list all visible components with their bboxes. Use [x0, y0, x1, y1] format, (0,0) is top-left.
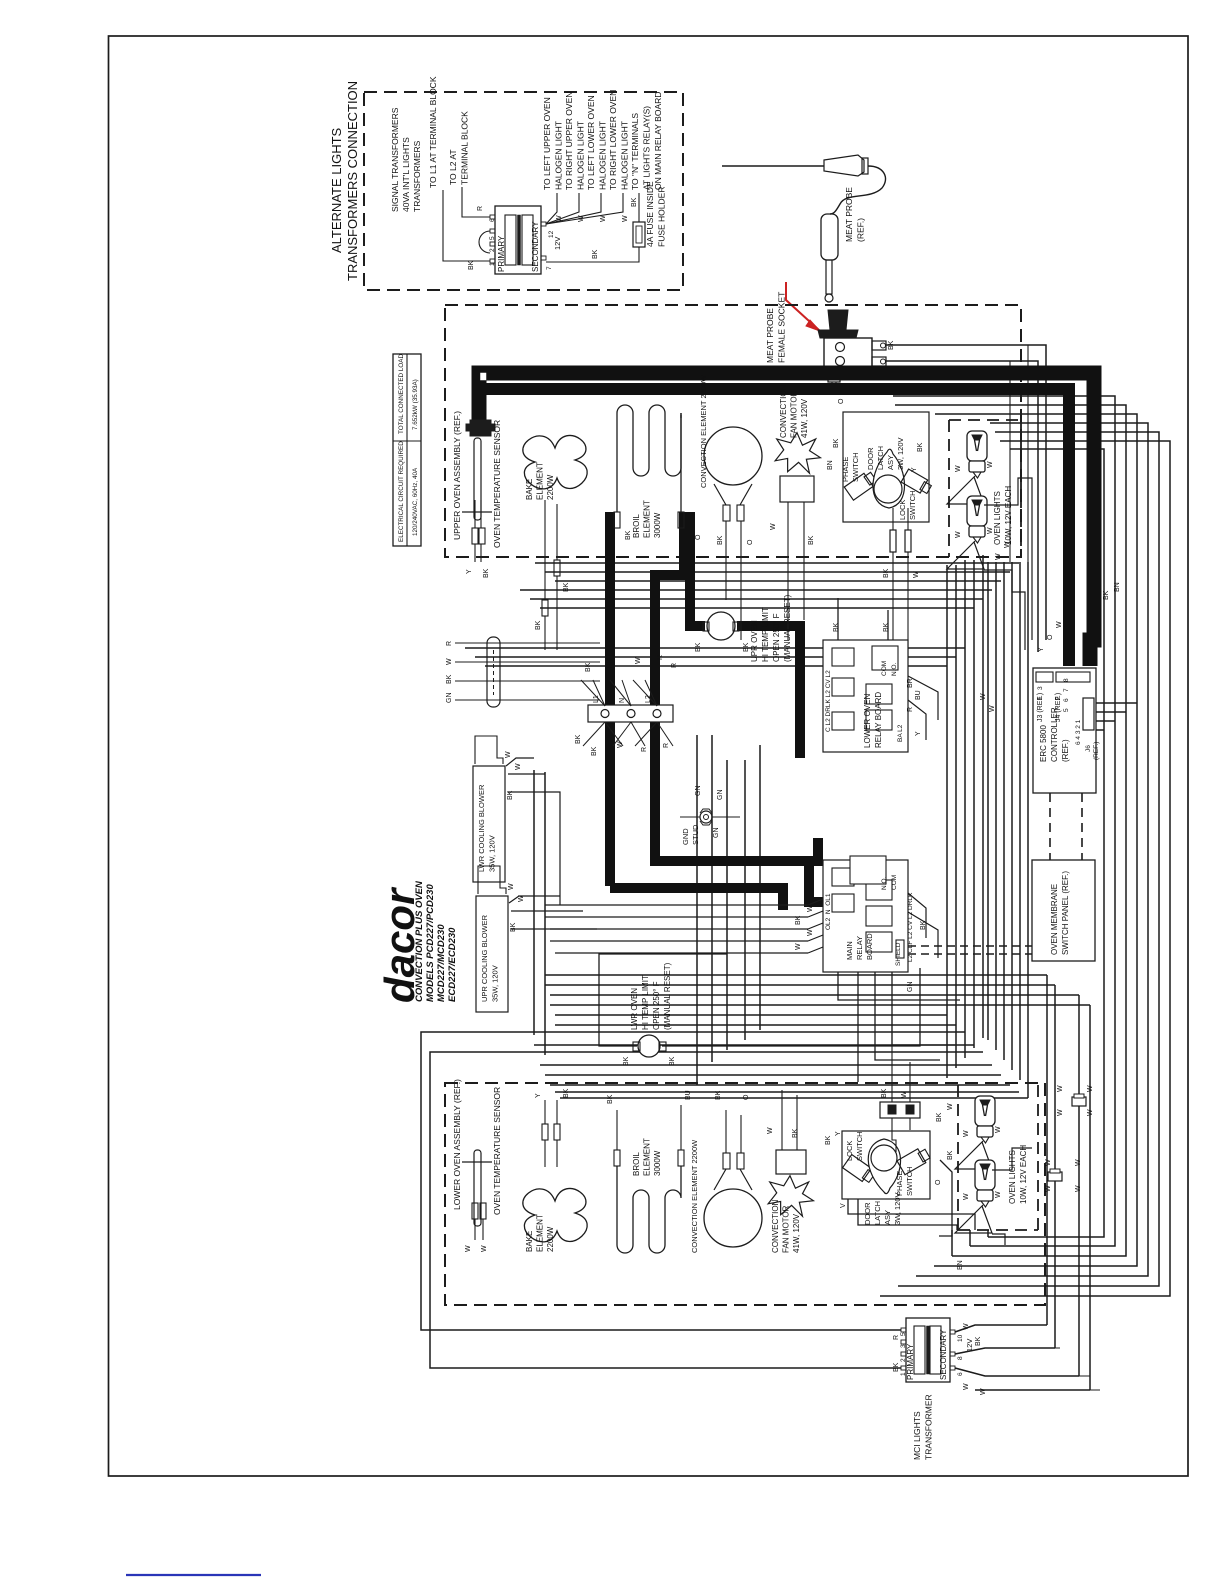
svg-text:OPEN 250° F: OPEN 250° F: [772, 613, 781, 662]
svg-text:LOCK: LOCK: [845, 1141, 854, 1161]
svg-text:CONVECTION: CONVECTION: [771, 1199, 780, 1253]
svg-text:2200W: 2200W: [546, 1226, 555, 1252]
svg-text:O: O: [747, 539, 754, 545]
svg-text:TO "N" TERMINALS: TO "N" TERMINALS: [630, 113, 640, 190]
svg-text:W: W: [767, 1127, 774, 1134]
svg-text:AT LIGHTS RELAY(S): AT LIGHTS RELAY(S): [642, 106, 652, 190]
svg-text:BK: BK: [881, 1088, 888, 1098]
svg-text:(MANUAL RESET): (MANUAL RESET): [663, 962, 672, 1030]
svg-text:O: O: [743, 1094, 750, 1100]
svg-text:HALOGEN LIGHT: HALOGEN LIGHT: [554, 121, 564, 190]
svg-text:41W, 120V: 41W, 120V: [800, 398, 809, 438]
svg-text:BK: BK: [563, 1088, 570, 1098]
svg-text:(REF.): (REF.): [856, 218, 866, 242]
svg-text:W: W: [807, 929, 814, 936]
svg-text:J6: J6: [1085, 745, 1092, 752]
svg-text:SWITCH: SWITCH: [855, 1131, 864, 1161]
svg-text:40VA INT'L LIGHTS: 40VA INT'L LIGHTS: [401, 137, 411, 212]
svg-text:BK: BK: [920, 920, 927, 930]
svg-text:OVEN TEMPERATURE SENSOR: OVEN TEMPERATURE SENSOR: [492, 420, 502, 548]
svg-text:SIGNAL TRANSFORMERS: SIGNAL TRANSFORMERS: [390, 107, 400, 212]
svg-text:W: W: [987, 461, 994, 468]
svg-text:BK: BK: [669, 1056, 676, 1066]
svg-text:W: W: [989, 705, 996, 712]
svg-text:COM: COM: [881, 661, 888, 676]
svg-text:TO RIGHT UPPER OVEN: TO RIGHT UPPER OVEN: [564, 92, 574, 190]
svg-text:FAN MOTOR: FAN MOTOR: [790, 390, 799, 438]
svg-text:Y: Y: [835, 1131, 842, 1136]
svg-text:6: 6: [489, 218, 496, 222]
svg-text:BK: BK: [446, 674, 453, 684]
svg-text:BK: BK: [591, 746, 598, 756]
svg-text:GN: GN: [717, 790, 724, 801]
svg-text:ELEMENT: ELEMENT: [536, 462, 545, 500]
svg-text:Y: Y: [535, 1093, 542, 1098]
svg-text:W: W: [515, 763, 522, 770]
svg-text:BK: BK: [592, 249, 599, 259]
svg-text:BK: BK: [808, 535, 815, 545]
svg-text:BROIL: BROIL: [632, 1151, 641, 1176]
svg-text:W: W: [1057, 1085, 1064, 1092]
svg-text:W: W: [1075, 1185, 1082, 1192]
svg-text:BK: BK: [883, 622, 890, 632]
svg-text:6: 6: [1063, 698, 1070, 702]
svg-text:W: W: [963, 1130, 970, 1137]
svg-text:BA L2: BA L2: [897, 724, 904, 742]
svg-text:PHASE: PHASE: [895, 1171, 904, 1196]
svg-text:BU: BU: [685, 1090, 692, 1100]
svg-text:ECD227/ECD230: ECD227/ECD230: [447, 927, 458, 1002]
svg-text:OVEN LIGHTS: OVEN LIGHTS: [993, 491, 1002, 545]
svg-text:7: 7: [546, 266, 553, 270]
svg-text:HI TEMP LIMIT: HI TEMP LIMIT: [641, 975, 650, 1030]
svg-text:BROIL: BROIL: [632, 513, 641, 538]
svg-text:OVEN LIGHTS: OVEN LIGHTS: [1008, 1150, 1017, 1204]
svg-text:GN: GN: [695, 786, 702, 797]
svg-text:W: W: [947, 1103, 954, 1110]
svg-text:3W, 120V: 3W, 120V: [896, 437, 905, 470]
svg-text:1: 1: [1037, 696, 1044, 700]
svg-text:BK: BK: [631, 197, 638, 207]
svg-text:BK: BK: [975, 1336, 982, 1346]
svg-text:1: 1: [900, 1372, 907, 1376]
svg-text:W: W: [505, 751, 512, 758]
svg-text:R: R: [446, 641, 453, 646]
svg-text:BK: BK: [717, 535, 724, 545]
svg-text:W: W: [770, 523, 777, 530]
svg-text:TOTAL CONNECTED LOAD: TOTAL CONNECTED LOAD: [398, 354, 405, 434]
svg-text:5: 5: [489, 236, 496, 240]
svg-text:12V: 12V: [553, 237, 562, 250]
svg-text:W: W: [901, 1091, 908, 1098]
svg-text:ERC 5800: ERC 5800: [1039, 725, 1048, 762]
svg-text:2: 2: [900, 1358, 907, 1362]
svg-text:OVEN MEMBRANE: OVEN MEMBRANE: [1050, 884, 1059, 955]
svg-text:BN: BN: [957, 1260, 964, 1270]
svg-text:R: R: [641, 747, 648, 752]
svg-text:ELEMENT: ELEMENT: [536, 1214, 545, 1252]
svg-text:W: W: [1075, 1159, 1082, 1166]
svg-text:W: W: [980, 1388, 987, 1395]
svg-text:LWR OVEN: LWR OVEN: [630, 988, 639, 1030]
svg-text:W: W: [1045, 1159, 1052, 1166]
svg-text:6 4 3 2 1: 6 4 3 2 1: [1075, 719, 1082, 745]
svg-text:W: W: [995, 1191, 1002, 1198]
svg-text:BU: BU: [915, 690, 922, 700]
svg-text:N.O.: N.O.: [881, 876, 888, 890]
svg-text:MAIN: MAIN: [845, 941, 854, 960]
svg-text:W: W: [963, 1383, 970, 1390]
svg-text:W: W: [955, 465, 962, 472]
svg-text:BN: BN: [827, 460, 834, 470]
svg-text:TRANSFORMERS CONNECTION: TRANSFORMERS CONNECTION: [345, 81, 360, 281]
svg-text:GND: GND: [681, 828, 690, 845]
svg-text:TO L1 AT TERMINAL BLOCK: TO L1 AT TERMINAL BLOCK: [428, 76, 438, 188]
svg-text:ELECTRICAL CIRCUIT REQUIRED: ELECTRICAL CIRCUIT REQUIRED: [398, 441, 405, 542]
svg-text:(MANUAL RESET): (MANUAL RESET): [783, 594, 792, 662]
svg-text:W: W: [980, 693, 987, 700]
svg-text:120/240VAC, 60Hz, 40A: 120/240VAC, 60Hz, 40A: [412, 467, 419, 536]
svg-text:W: W: [1057, 1109, 1064, 1116]
svg-text:BAKE: BAKE: [525, 479, 534, 500]
svg-text:3: 3: [1037, 686, 1044, 690]
svg-text:CONVECTION: CONVECTION: [779, 384, 788, 438]
svg-text:5: 5: [900, 1332, 907, 1336]
svg-text:GN: GN: [907, 982, 914, 993]
svg-text:BK: BK: [833, 438, 840, 448]
svg-text:BK: BK: [883, 568, 890, 578]
svg-text:R: R: [477, 206, 484, 211]
svg-text:PHASE: PHASE: [841, 457, 850, 482]
svg-text:OVEN TEMPERATURE SENSOR: OVEN TEMPERATURE SENSOR: [492, 1087, 502, 1215]
svg-text:1: 1: [489, 262, 496, 266]
svg-text:W: W: [635, 657, 642, 664]
svg-text:HALOGEN LIGHT: HALOGEN LIGHT: [576, 121, 586, 190]
svg-text:R: R: [657, 655, 664, 660]
svg-text:10W, 12V EACH: 10W, 12V EACH: [1019, 1145, 1028, 1204]
svg-text:W: W: [795, 943, 802, 950]
svg-text:W: W: [622, 215, 629, 222]
svg-text:LOWER OVEN ASSEMBLY (REF.): LOWER OVEN ASSEMBLY (REF.): [452, 1079, 462, 1210]
svg-text:R: R: [907, 707, 914, 712]
svg-text:RELAY BOARD: RELAY BOARD: [874, 692, 883, 748]
svg-text:CONVECTION ELEMENT 2200W: CONVECTION ELEMENT 2200W: [690, 1139, 699, 1253]
svg-text:TRANSFORMER: TRANSFORMER: [924, 1394, 934, 1460]
svg-text:BK: BK: [833, 622, 840, 632]
svg-text:MEAT PROBE: MEAT PROBE: [844, 187, 854, 242]
svg-text:R: R: [671, 663, 678, 668]
svg-text:W: W: [465, 1245, 472, 1252]
svg-text:W: W: [1045, 1185, 1052, 1192]
svg-text:R: R: [663, 743, 670, 748]
svg-text:3000W: 3000W: [653, 1150, 662, 1176]
svg-text:41W, 120V: 41W, 120V: [792, 1213, 801, 1253]
svg-text:35W, 120V: 35W, 120V: [491, 965, 500, 1002]
svg-text:W: W: [446, 658, 453, 665]
svg-text:RELAY: RELAY: [855, 936, 864, 960]
svg-text:STUD: STUD: [691, 824, 700, 845]
svg-text:N.O.: N.O.: [891, 662, 898, 676]
svg-text:2: 2: [489, 248, 496, 252]
svg-text:BK: BK: [468, 260, 475, 270]
svg-text:Y: Y: [1038, 647, 1045, 652]
svg-text:W: W: [807, 905, 814, 912]
svg-text:PRIMARY: PRIMARY: [497, 235, 506, 272]
svg-text:MEAT PROBE: MEAT PROBE: [765, 308, 775, 363]
svg-text:W: W: [1056, 621, 1063, 628]
svg-text:BK: BK: [917, 442, 924, 452]
svg-text:BK: BK: [607, 658, 614, 668]
svg-text:FUSE HOLDER: FUSE HOLDER: [657, 187, 667, 247]
svg-text:DOOR: DOOR: [866, 447, 875, 470]
svg-text:O: O: [838, 398, 845, 404]
svg-text:LWR COOLING BLOWER: LWR COOLING BLOWER: [477, 784, 486, 872]
svg-text:TO LEFT LOWER OVEN: TO LEFT LOWER OVEN: [586, 95, 596, 190]
svg-text:LOWER OVEN: LOWER OVEN: [863, 694, 872, 748]
svg-text:TERMINAL BLOCK: TERMINAL BLOCK: [460, 111, 470, 185]
svg-text:LATCH: LATCH: [873, 1201, 882, 1225]
svg-text:BK: BK: [563, 582, 570, 592]
svg-text:3W, 120V: 3W, 120V: [893, 1192, 902, 1225]
svg-text:V: V: [840, 1203, 847, 1208]
svg-text:SWITCH: SWITCH: [905, 1166, 914, 1196]
svg-text:(REF.): (REF.): [1061, 739, 1070, 762]
svg-text:BK: BK: [623, 1056, 630, 1066]
svg-text:BN: BN: [1114, 582, 1121, 592]
svg-text:UPR OVEN: UPR OVEN: [750, 620, 759, 662]
svg-text:BK: BK: [1103, 590, 1110, 600]
svg-text:10W, 12V EACH: 10W, 12V EACH: [1004, 486, 1013, 545]
svg-text:6: 6: [957, 1372, 964, 1376]
svg-text:BK: BK: [947, 1150, 954, 1160]
svg-text:10: 10: [957, 1334, 964, 1342]
svg-text:BK: BK: [893, 1362, 900, 1372]
svg-text:(REF.): (REF.): [1093, 742, 1100, 760]
svg-text:ELEMENT: ELEMENT: [643, 500, 652, 538]
svg-text:ASY: ASY: [883, 1210, 892, 1225]
svg-text:COM: COM: [891, 875, 898, 890]
svg-text:3: 3: [900, 1344, 907, 1348]
svg-text:4A FUSE INSIDE: 4A FUSE INSIDE: [645, 181, 655, 247]
svg-text:W: W: [1087, 1085, 1094, 1092]
svg-text:W: W: [481, 1245, 488, 1252]
svg-text:BK: BK: [483, 568, 490, 578]
svg-text:CONVECTION ELEMENT 2200W: CONVECTION ELEMENT 2200W: [699, 374, 708, 488]
svg-text:SWITCH: SWITCH: [851, 452, 860, 482]
svg-text:GN: GN: [446, 693, 453, 704]
svg-text:OPEN 250° F: OPEN 250° F: [652, 981, 661, 1030]
svg-text:BK: BK: [510, 922, 517, 932]
svg-text:3000W: 3000W: [653, 512, 662, 538]
svg-text:SWITCH: SWITCH: [908, 490, 917, 520]
svg-text:TRANSFORMERS: TRANSFORMERS: [412, 140, 422, 212]
svg-text:W: W: [955, 531, 962, 538]
svg-text:W: W: [600, 215, 607, 222]
svg-text:LOCK: LOCK: [898, 500, 907, 520]
svg-text:PRIMARY: PRIMARY: [906, 1343, 915, 1380]
svg-text:C L2 DRLK L2 CV L2: C L2 DRLK L2 CV L2: [825, 670, 832, 732]
svg-text:7.652kW (35.93A): 7.652kW (35.93A): [412, 379, 419, 430]
svg-text:FEMALE SOCKET: FEMALE SOCKET: [777, 292, 787, 363]
svg-text:W: W: [617, 741, 624, 748]
svg-text:8: 8: [1063, 678, 1070, 682]
svg-text:HALOGEN LIGHT: HALOGEN LIGHT: [620, 121, 630, 190]
svg-text:GN: GN: [713, 828, 720, 839]
svg-text:O: O: [1047, 634, 1054, 640]
svg-text:BK: BK: [715, 1090, 722, 1100]
svg-text:R: R: [893, 1335, 900, 1340]
svg-text:Y: Y: [911, 467, 918, 472]
svg-text:MCD227/MCD230: MCD227/MCD230: [436, 924, 447, 1002]
svg-text:BK: BK: [585, 662, 592, 672]
svg-text:FAN MOTOR: FAN MOTOR: [782, 1205, 791, 1253]
svg-text:MODELS PCD227/PCD230: MODELS PCD227/PCD230: [425, 884, 436, 1002]
svg-text:BK: BK: [795, 915, 802, 925]
svg-text:W: W: [508, 883, 515, 890]
svg-text:SECONDARY: SECONDARY: [939, 1329, 948, 1380]
svg-text:5: 5: [1063, 708, 1070, 712]
svg-text:ELEMENT: ELEMENT: [643, 1138, 652, 1176]
svg-text:HI TEMP LIMIT: HI TEMP LIMIT: [761, 607, 770, 662]
svg-text:8: 8: [957, 1356, 964, 1360]
svg-text:L2 CLF L2 CV L2 DRLK: L2 CLF L2 CV L2 DRLK: [907, 892, 914, 962]
svg-text:W: W: [913, 571, 920, 578]
svg-text:BK: BK: [535, 620, 542, 630]
svg-text:BK: BK: [792, 1128, 799, 1138]
svg-text:CONVECTION PLUS OVEN: CONVECTION PLUS OVEN: [414, 880, 425, 1002]
svg-text:ALTERNATE LIGHTS: ALTERNATE LIGHTS: [329, 127, 344, 253]
svg-text:TO RIGHT LOWER OVEN: TO RIGHT LOWER OVEN: [608, 90, 618, 190]
svg-text:BK: BK: [825, 1135, 832, 1145]
svg-text:2: 2: [1055, 696, 1062, 700]
svg-text:BOARD: BOARD: [865, 933, 874, 960]
svg-text:LATCH: LATCH: [876, 446, 885, 470]
svg-text:BK: BK: [507, 790, 514, 800]
svg-text:ASY: ASY: [886, 455, 895, 470]
svg-text:BK: BK: [607, 1094, 614, 1104]
svg-text:TO L2 AT: TO L2 AT: [448, 149, 458, 185]
svg-text:OL2 N OL1: OL2 N OL1: [825, 893, 832, 930]
svg-text:Y: Y: [915, 731, 922, 736]
svg-text:SECONDARY: SECONDARY: [531, 221, 540, 272]
svg-text:W: W: [1087, 1109, 1094, 1116]
svg-text:W: W: [518, 895, 525, 902]
svg-text:UPPER OVEN ASSEMBLY (REF.): UPPER OVEN ASSEMBLY (REF.): [452, 411, 462, 540]
svg-text:UPR COOLING BLOWER: UPR COOLING BLOWER: [480, 914, 489, 1002]
svg-text:BK: BK: [625, 530, 632, 540]
svg-text:SWITCH PANEL (REF.): SWITCH PANEL (REF.): [1061, 871, 1070, 955]
svg-text:BR: BR: [907, 678, 914, 688]
svg-text:W: W: [995, 1126, 1002, 1133]
svg-text:MCI LIGHTS: MCI LIGHTS: [912, 1411, 922, 1460]
svg-text:BK: BK: [575, 734, 582, 744]
svg-text:BK: BK: [695, 642, 702, 652]
svg-text:O: O: [695, 534, 702, 540]
svg-text:O: O: [935, 1179, 942, 1185]
svg-text:Y: Y: [466, 569, 473, 574]
svg-text:7: 7: [1063, 688, 1070, 692]
svg-text:BAKE: BAKE: [525, 1231, 534, 1252]
svg-text:BK: BK: [743, 642, 750, 652]
svg-text:2200W: 2200W: [546, 474, 555, 500]
svg-text:BK: BK: [936, 1112, 943, 1122]
svg-text:HALOGEN LIGHT: HALOGEN LIGHT: [598, 121, 608, 190]
svg-text:ON MAIN RELAY BOARD: ON MAIN RELAY BOARD: [653, 92, 663, 190]
svg-text:TO LEFT UPPER OVEN: TO LEFT UPPER OVEN: [542, 97, 552, 190]
svg-text:W: W: [963, 1193, 970, 1200]
